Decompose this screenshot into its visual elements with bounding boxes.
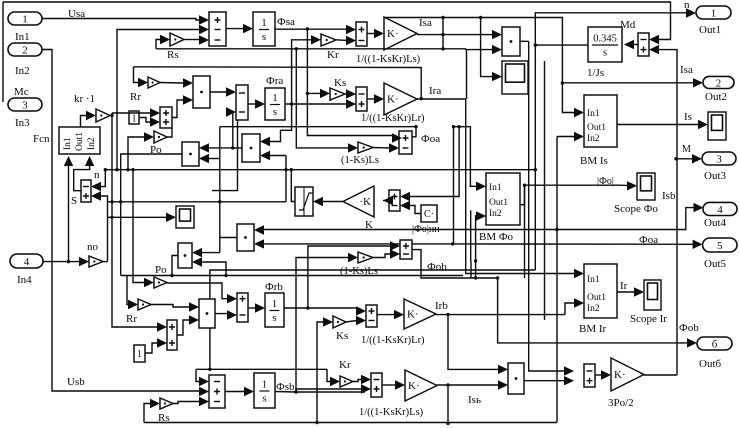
svg-text:(1-Ks)Ls: (1-Ks)Ls — [341, 155, 379, 166]
sum block S11 — [167, 320, 177, 350]
arrow into Kr2 — [330, 377, 340, 386]
svg-text:1: 1 — [132, 114, 137, 125]
wire Fcn Out1 to kr1 — [81, 116, 88, 128]
gain Po1 — [150, 131, 167, 156]
arrow into Out4 — [694, 203, 704, 212]
wire Usa In1 to S1 — [42, 19, 200, 21]
arrow into S5 minus — [389, 143, 399, 152]
wire Irb down to P8 — [448, 315, 499, 370]
gain G5 Isb — [405, 370, 437, 401]
product P3 — [242, 134, 260, 162]
svg-text:In2: In2 — [587, 304, 600, 314]
svg-text:Out1: Out1 — [489, 198, 508, 208]
svg-text:Ira: Ira — [429, 85, 441, 97]
svg-text:In2: In2 — [489, 209, 502, 219]
node n line junction — [104, 168, 107, 171]
arrow S3 to I2 — [255, 99, 265, 108]
arrow into S7 plus — [649, 45, 659, 54]
label 1/((1-KsKr)Ls) lower — [359, 407, 424, 418]
wire Irb out — [436, 314, 565, 316]
arrow into P5 in2 — [192, 257, 202, 266]
arrow into S15 in1 — [150, 108, 160, 117]
svg-text:Kr: Kr — [339, 359, 351, 371]
arrow into S5 plus — [392, 133, 402, 142]
wire into S8 minus — [409, 206, 421, 214]
arrow into P5 in1 — [192, 248, 202, 257]
svg-text:S: S — [71, 195, 77, 207]
arrow S14 to G5 — [395, 380, 405, 389]
svg-text:In1: In1 — [489, 183, 502, 193]
sum block S1 Usa — [209, 12, 226, 46]
svg-text:BM Ir: BM Ir — [579, 323, 607, 335]
gain Kr2 — [340, 376, 353, 387]
wire into G7 — [296, 49, 349, 148]
node Ira junction — [0, 0, 1, 1]
wire P3 to P4 — [208, 147, 242, 149]
svg-text:Scope Фо: Scope Фо — [614, 203, 658, 215]
arrow into S4 plus — [346, 99, 356, 108]
wire S1 to I1 — [226, 28, 244, 30]
svg-text:2: 2 — [22, 45, 28, 57]
wire Isb up into P2 — [466, 48, 493, 51]
svg-text:Out1: Out1 — [587, 123, 606, 133]
wire into S12 plus — [357, 308, 359, 311]
wire Ks1 to S4 — [345, 93, 347, 95]
arrow into S10 minus — [227, 310, 237, 319]
svg-text:Po: Po — [150, 144, 162, 156]
label (1-Ks)Ls upper — [341, 155, 379, 166]
arrow into P3 in2 — [260, 151, 270, 160]
svg-text:|Фо|: |Фо| — [597, 176, 614, 187]
arrow into P8 in2 — [498, 380, 508, 389]
wire In4 to Fcn In1 — [68, 165, 70, 262]
svg-text:1/((1-KsKr)Lr): 1/((1-KsKr)Lr) — [361, 113, 425, 124]
svg-text:Out3: Out3 — [704, 170, 727, 182]
label Ira — [429, 85, 441, 97]
svg-text:·K: ·K — [359, 196, 371, 208]
wire into Po1 — [126, 137, 145, 171]
wire S12 to G4 — [377, 314, 395, 316]
wire into S11 in1 — [112, 217, 158, 327]
gain G1 Isa 1/((1-KsKr)Ls) — [384, 17, 417, 50]
arrow S2 to G1 — [374, 29, 384, 38]
svg-text:M: M — [682, 144, 691, 155]
svg-text:Fcn: Fcn — [33, 133, 50, 145]
arrow into P1 in1 — [183, 78, 193, 87]
wire P8 to S16 — [524, 380, 565, 382]
svg-text:BM Фо: BM Фо — [479, 231, 514, 243]
gain G2 Ira — [384, 83, 417, 115]
label Kr2 — [339, 359, 351, 371]
svg-text:BM Is: BM Is — [580, 155, 608, 167]
wire x466 vertical — [466, 50, 468, 99]
wire y67 long Ira feedback — [134, 67, 423, 101]
label Isb at Out4 — [662, 190, 676, 202]
node x112 y202 — [110, 200, 113, 203]
product P6 — [237, 224, 254, 251]
arrow into S9 plus — [390, 241, 400, 250]
wire P6 out to P5 — [201, 238, 237, 253]
svg-text:In4: In4 — [17, 274, 32, 286]
wire S11 to P7 — [177, 320, 190, 335]
label Fob — [427, 261, 447, 273]
node Fob junction — [474, 276, 477, 279]
arrow S1 to I1 — [243, 24, 253, 33]
scope Sc5 — [644, 280, 661, 310]
svg-text:In1: In1 — [63, 137, 73, 150]
arrow into S16 minus — [564, 366, 574, 375]
wire n into S6 — [100, 170, 105, 187]
svg-text:Out1: Out1 — [587, 293, 606, 303]
scope Sc3 — [637, 173, 655, 200]
wire S6 to Fcn In2 — [74, 165, 90, 191]
gain Ks1 — [330, 88, 345, 100]
svg-text:1: 1 — [272, 92, 278, 104]
label no — [87, 241, 99, 253]
arrow into Kr1 — [311, 35, 321, 44]
integrator I3 Frb — [265, 293, 284, 327]
arrow G3 to saturation — [313, 197, 323, 206]
wire into Kr2 — [327, 369, 331, 381]
wire Foa down to Out5 — [452, 125, 455, 244]
subsystem BM Ir — [584, 264, 617, 318]
scope Sc4 — [708, 112, 726, 140]
arrow into BMFo In1 — [476, 182, 486, 191]
svg-text:2: 2 — [716, 77, 722, 89]
arrow into S12 minus — [356, 316, 366, 325]
arrow into P4 in1 — [199, 143, 209, 152]
wire into BMFo In2 — [474, 216, 478, 278]
wire C2 to S11 — [145, 343, 158, 353]
gain Po2 — [154, 277, 167, 288]
wire In4 to no1 — [43, 261, 80, 263]
output port Out4 — [703, 202, 737, 229]
constant C2 — [134, 345, 145, 362]
arrow into P3 in1 — [260, 137, 270, 146]
node Isa junction — [441, 33, 444, 36]
arrow Kr1 to S2 — [346, 36, 356, 45]
output port Out1 — [696, 6, 731, 36]
svg-text:(1-Ks)Ls: (1-Ks)Ls — [340, 266, 378, 277]
wire Fsa out — [275, 28, 351, 30]
label Ks top — [334, 77, 346, 89]
svg-text:s: s — [603, 48, 607, 59]
wire P5 out — [170, 256, 178, 278]
label Frb — [265, 281, 283, 293]
arrow S12 to G4 — [394, 310, 404, 319]
svg-text:K·: K· — [614, 369, 626, 381]
node n junction — [534, 43, 537, 46]
wire y245 to Out5 — [453, 243, 694, 245]
wire Foa out — [412, 127, 416, 137]
wire x470 segment — [470, 210, 472, 261]
arrow into Ks1 — [320, 89, 330, 98]
wire BMIs out — [617, 124, 699, 126]
svg-text:Фrb: Фrb — [265, 281, 283, 293]
arrow into S2 plus — [346, 25, 356, 34]
wire no1 out — [103, 261, 108, 263]
wire n down — [534, 45, 536, 270]
arrow into S14 minus — [361, 375, 371, 384]
svg-text:Ks: Ks — [336, 330, 348, 342]
svg-text:K·: K· — [407, 309, 419, 321]
wire Foa down x220 — [219, 127, 221, 253]
arrow into S8 minus — [400, 201, 410, 210]
label 3Po/2 — [608, 397, 634, 409]
arrow S7 to 1/Js — [624, 40, 634, 49]
wire torque into S7 — [657, 50, 677, 375]
wire into Rr1 — [134, 67, 140, 83]
integrator I4 Fsb — [254, 373, 275, 408]
wire |Fo| down — [524, 185, 526, 278]
sum block S15 — [160, 107, 172, 128]
constant C3 — [421, 205, 437, 222]
node Isb junction — [446, 383, 449, 386]
scope Sc1 — [502, 61, 528, 94]
arrow into BMIs In2 — [574, 132, 584, 141]
label K under G3 — [365, 219, 373, 231]
arrow into S12 plus — [356, 306, 366, 315]
gain Ks2 — [333, 316, 346, 328]
sum block S14 — [371, 373, 382, 397]
wire x471 vertical — [470, 261, 472, 278]
arrow into Rr2 — [128, 300, 138, 309]
wire G6 up to S7 — [644, 374, 677, 376]
svg-text:1: 1 — [711, 8, 717, 20]
wire bottom long — [144, 422, 557, 424]
arrow into kr1 — [86, 111, 96, 120]
wire no into S6 — [100, 196, 108, 262]
arrow into scope Sc1 — [492, 72, 502, 81]
gain G7 (1-Ks)Ls upper — [358, 142, 373, 153]
svg-text:s: s — [262, 393, 266, 405]
arrow S13 to I4 — [244, 387, 254, 396]
wire y369 to S13 — [196, 369, 200, 381]
arrow into S14 plus — [361, 384, 371, 393]
svg-text:4: 4 — [24, 256, 30, 268]
arrow into S8 plus — [400, 192, 410, 201]
arrow into P8 in1 — [498, 365, 508, 374]
svg-text:K·: K· — [408, 380, 420, 392]
svg-text:1: 1 — [272, 298, 278, 310]
sum block S3 — [236, 85, 248, 120]
wire Kr1 to S2 — [336, 39, 348, 42]
wire into Rr2 — [127, 276, 129, 305]
arrow into BMFo In2 — [476, 211, 486, 220]
label Rr2 — [126, 313, 137, 325]
wire kr1 out down — [110, 113, 151, 202]
svg-text:3: 3 — [716, 154, 722, 166]
product P2 — [502, 27, 520, 56]
wire into S9 plus — [306, 246, 391, 310]
wire Isa down to y50 — [442, 35, 444, 49]
label (1-Ks)Ls lower — [340, 266, 378, 277]
sum block S13 Usb — [209, 375, 225, 408]
arrow into P6 in2 — [254, 239, 264, 248]
label Irb — [435, 300, 448, 312]
node Isb bottom junction — [446, 422, 449, 425]
node Irb junction — [446, 313, 449, 316]
wire y343 to Out6 — [496, 276, 688, 343]
sum block S10 Frb — [237, 293, 248, 322]
wire S3 to I2 — [248, 103, 256, 105]
wire into Po2 — [131, 168, 145, 283]
arrow into Out3 — [692, 154, 702, 163]
gain no1 — [89, 256, 103, 267]
label Ir — [620, 280, 628, 292]
sum block S8 — [389, 190, 400, 211]
transfer fcn 1/Js — [587, 27, 622, 79]
wire Frb out — [284, 308, 358, 311]
wire Rs1 to S1 — [184, 39, 200, 41]
svg-text:Out1: Out1 — [75, 132, 85, 151]
wire into Kr1 — [290, 40, 312, 106]
gain G4 Irb — [404, 299, 436, 329]
svg-text:1: 1 — [22, 14, 28, 26]
label n at Out1 — [684, 0, 690, 11]
svg-text:Isь: Isь — [468, 394, 481, 406]
svg-text:Scope Ir: Scope Ir — [630, 313, 667, 325]
svg-text:Po: Po — [155, 264, 167, 276]
product P5 — [178, 243, 192, 268]
label Usb — [67, 376, 85, 388]
wire into BMIr In2 — [565, 303, 575, 315]
wire x557 vertical — [556, 137, 558, 423]
arrow into S15 in2 — [150, 117, 160, 126]
svg-text:In1: In1 — [15, 31, 30, 43]
node In4 junction — [67, 260, 70, 263]
svg-text:Out1: Out1 — [699, 24, 721, 36]
node M junction — [674, 157, 677, 160]
arrow into P7 in2 — [189, 315, 199, 324]
wire Po2 out — [167, 283, 229, 299]
svg-text:Outб: Outб — [699, 358, 722, 370]
wire P2 out — [520, 40, 529, 42]
wire Isa feedback y50 — [156, 48, 466, 50]
wire Fsb to S14 — [296, 389, 362, 392]
node Fsa junction — [306, 27, 309, 30]
svg-text:Mc: Mc — [14, 86, 29, 98]
arrow into S11 in2 — [157, 338, 167, 347]
label kr -1 — [74, 93, 95, 105]
wire into G8 — [296, 258, 349, 393]
wire Fra out — [285, 103, 351, 105]
label Isa top — [419, 17, 432, 29]
wire S3 bottom segment — [212, 120, 238, 191]
wire P1 to S3 — [210, 91, 228, 93]
svg-text:Ir: Ir — [620, 280, 628, 292]
scope Sc2 — [176, 206, 194, 228]
wire Isa out — [417, 34, 484, 36]
sum block S7 Md — [638, 33, 649, 56]
sum block S4 — [356, 87, 367, 111]
product P4 — [182, 142, 199, 166]
arrow S16 to G6 — [601, 370, 611, 379]
arrow into Sc2 — [166, 213, 176, 222]
svg-text:In1: In1 — [587, 275, 600, 285]
arrow into G8 — [348, 253, 358, 262]
svg-text:Rs: Rs — [167, 49, 179, 61]
wire y369 long — [196, 368, 327, 370]
arrow into BMIr In1 — [574, 269, 584, 278]
svg-text:C·: C· — [424, 209, 434, 220]
wire y228 to Out4 — [557, 208, 694, 230]
wire y270 line — [208, 270, 535, 371]
wire into Sc2 — [108, 216, 167, 218]
sum block S9 Fob — [400, 240, 412, 259]
arrow into S6 plus — [91, 191, 101, 200]
svg-text:Irb: Irb — [435, 300, 448, 312]
wire x452 vertical — [0, 0, 1, 1]
label 1/((1-KsKr)Lr) lower — [361, 335, 425, 346]
output port Out2 — [703, 76, 734, 103]
product P7 — [199, 299, 215, 328]
wire into S16 minus — [529, 41, 565, 371]
arrow into no1 — [79, 257, 89, 266]
wire Po1 out — [167, 128, 172, 137]
svg-text:Out4: Out4 — [704, 217, 727, 229]
output port Out3 — [702, 152, 736, 182]
gain G8 (1-Ks)Ls lower — [358, 252, 373, 263]
wire top long n feedback — [3, 2, 671, 40]
arrow into Rs1 — [160, 35, 170, 44]
label n near S6 — [94, 169, 100, 181]
label Isb bottom — [468, 394, 481, 406]
label Fob at Out6 — [679, 322, 699, 334]
wire S14 to G5 — [382, 384, 396, 386]
label BM Fo — [479, 231, 514, 243]
svg-text:3: 3 — [22, 100, 28, 112]
svg-text:б: б — [712, 339, 718, 351]
arrow into Rr1 — [138, 78, 148, 87]
wire Rr1 to P1 — [159, 82, 184, 85]
wire Rr2 to P7 — [151, 305, 190, 308]
svg-text:no: no — [87, 241, 99, 253]
wire In3 left border — [2, 2, 4, 102]
label |Fo|nn — [412, 224, 440, 235]
gain Kr1 — [321, 34, 339, 61]
sum block S12 — [366, 305, 377, 327]
subsystem Fcn — [59, 127, 100, 154]
arrow S4 to G2 — [374, 94, 384, 103]
wire saturation out — [290, 168, 295, 202]
gain G6 3Po/2 — [611, 358, 644, 391]
arrow into P2 top — [492, 30, 502, 39]
svg-text:In2: In2 — [87, 137, 97, 150]
svg-text:1: 1 — [262, 379, 268, 391]
input port In3 — [8, 98, 42, 129]
arrow into Sc3 — [627, 181, 637, 190]
svg-text:Is: Is — [684, 111, 692, 123]
svg-text:Usb: Usb — [67, 376, 85, 388]
node Fsb junction — [294, 390, 297, 393]
wire G7 to S5 — [373, 147, 390, 150]
wire Rs2 loop — [144, 404, 151, 423]
wire S16 to G6 — [595, 374, 602, 376]
svg-text:1: 1 — [261, 17, 267, 29]
arrow into S3 in2 — [226, 107, 236, 116]
wire y202 — [108, 200, 287, 203]
svg-text:Ks: Ks — [334, 77, 346, 89]
arrow into P4 in2 — [199, 154, 209, 163]
label Fsb — [276, 381, 295, 393]
wire into P3 in1 from Fra — [269, 104, 292, 142]
wire BMFo out — [520, 185, 620, 205]
svg-text:1/Js: 1/Js — [587, 67, 604, 79]
wire G8 to S9 — [373, 254, 391, 258]
arrow S10 to I3 — [255, 303, 265, 312]
saturation block — [295, 187, 313, 216]
